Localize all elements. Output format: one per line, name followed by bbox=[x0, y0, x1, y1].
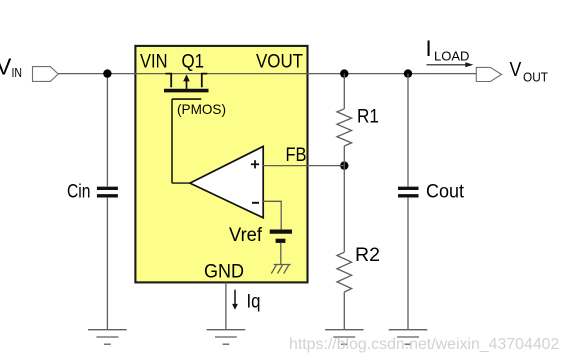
svg-text:LOAD: LOAD bbox=[434, 48, 469, 63]
svg-text:IN: IN bbox=[12, 65, 23, 80]
svg-text:R2: R2 bbox=[355, 245, 380, 266]
svg-text:VIN: VIN bbox=[140, 52, 168, 73]
svg-text:Q1: Q1 bbox=[182, 52, 205, 73]
svg-text:FB: FB bbox=[286, 145, 307, 166]
svg-text:Iq: Iq bbox=[247, 292, 261, 313]
svg-text:R1: R1 bbox=[357, 107, 379, 128]
svg-text:VOUT: VOUT bbox=[256, 52, 303, 73]
svg-text:I: I bbox=[426, 36, 432, 61]
svg-text:Cin: Cin bbox=[67, 181, 91, 202]
svg-text:Cout: Cout bbox=[426, 181, 465, 202]
svg-text:(PMOS): (PMOS) bbox=[177, 101, 226, 117]
svg-text:Vref: Vref bbox=[229, 225, 263, 246]
svg-text:https://blog.csdn.net/weixin_4: https://blog.csdn.net/weixin_43704402 bbox=[289, 336, 559, 353]
svg-text:GND: GND bbox=[204, 262, 244, 283]
svg-text:V: V bbox=[0, 54, 12, 80]
svg-text:OUT: OUT bbox=[523, 70, 548, 85]
svg-text:V: V bbox=[510, 59, 522, 81]
